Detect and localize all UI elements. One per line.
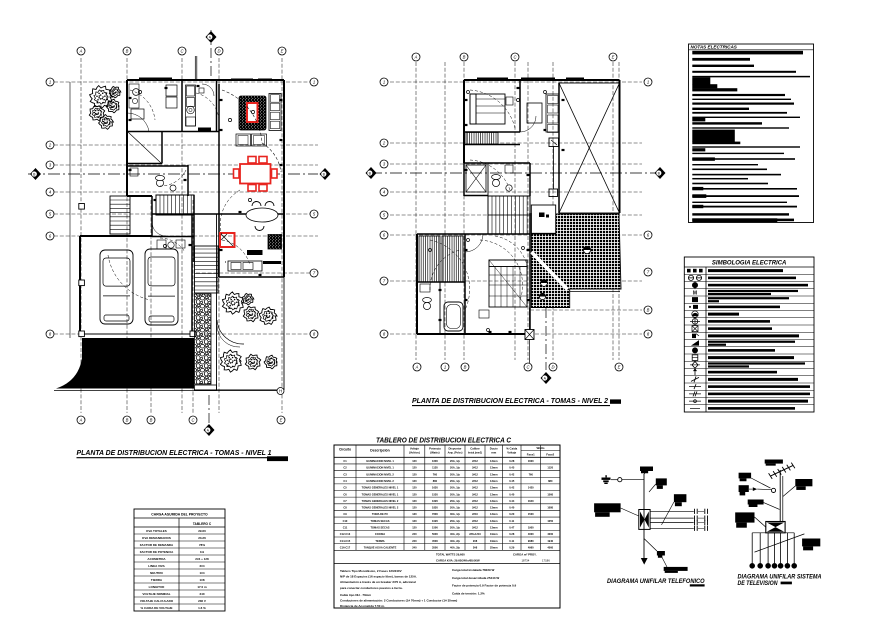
svg-text:ILUMINACION NIVEL 1: ILUMINACION NIVEL 1 xyxy=(366,459,394,463)
svg-text:1600: 1600 xyxy=(432,459,438,463)
svg-text:0.11: 0.11 xyxy=(509,539,514,543)
svg-text:COCINA: COCINA xyxy=(375,532,385,536)
svg-text:760: 760 xyxy=(433,472,438,476)
svg-text:ACOMETIDA: ACOMETIDA xyxy=(147,557,166,561)
svg-text:1.6 %: 1.6 % xyxy=(198,606,206,610)
svg-text:0.47: 0.47 xyxy=(509,526,515,530)
svg-text:1600: 1600 xyxy=(528,459,534,463)
svg-text:1620: 1620 xyxy=(432,499,438,503)
svg-text:Tablero Tipo Monofásico, 2 Fas: Tablero Tipo Monofásico, 2 Fases 120/240… xyxy=(340,569,402,573)
svg-text:2#8: 2#8 xyxy=(473,545,478,549)
svg-text:4960: 4960 xyxy=(528,545,534,549)
svg-text:2#12: 2#12 xyxy=(472,499,478,503)
svg-text:DIAGRAMA UNIFILAR TELEFONICO: DIAGRAMA UNIFILAR TELEFONICO xyxy=(607,578,705,585)
svg-text:0.28: 0.28 xyxy=(509,459,515,463)
svg-text:(Voltios): (Voltios) xyxy=(409,451,420,455)
svg-text:Caída de tensión: 1.2%: Caída de tensión: 1.2% xyxy=(452,591,485,595)
svg-text:9080: 9080 xyxy=(528,539,534,543)
svg-text:B: B xyxy=(647,308,650,313)
svg-text:E: E xyxy=(618,365,621,370)
svg-text:880: 880 xyxy=(433,479,438,483)
svg-text:25mm: 25mm xyxy=(490,545,498,549)
svg-text:240: 240 xyxy=(412,539,417,543)
svg-text:B: B xyxy=(126,418,129,423)
svg-text:2#8: 2#8 xyxy=(473,539,478,543)
svg-text:1940: 1940 xyxy=(547,539,553,543)
svg-text:Circuito: Circuito xyxy=(339,448,351,452)
svg-text:20A, 1/p: 20A, 1/p xyxy=(450,526,460,530)
svg-text:C8: C8 xyxy=(343,506,347,510)
svg-text:Factor de potencia 0.9 Fac: Factor de potencia 0.9 Factor de potenci… xyxy=(452,584,517,588)
svg-text:120: 120 xyxy=(412,472,417,476)
svg-text:A: A xyxy=(414,55,418,60)
svg-text:0.28: 0.28 xyxy=(509,532,515,536)
svg-text:TOMAS GENERALES NIVEL 2: TOMAS GENERALES NIVEL 2 xyxy=(362,506,399,510)
svg-text:2#12: 2#12 xyxy=(472,472,478,476)
svg-text:1020: 1020 xyxy=(432,519,438,523)
svg-text:C10: C10 xyxy=(343,519,348,523)
svg-text:1120: 1120 xyxy=(547,466,553,470)
svg-text:C3: C3 xyxy=(343,472,347,476)
svg-text:1900: 1900 xyxy=(528,526,534,530)
svg-text:1520: 1520 xyxy=(432,492,438,496)
svg-text:2#12: 2#12 xyxy=(472,466,478,470)
svg-text:1080: 1080 xyxy=(547,506,553,510)
svg-text:2#4 + 1#8: 2#4 + 1#8 xyxy=(195,557,209,561)
svg-text:240: 240 xyxy=(199,592,204,596)
svg-text:2#10: 2#10 xyxy=(472,512,478,516)
svg-text:Watts: Watts xyxy=(536,446,544,450)
svg-text:Disyuntor: Disyuntor xyxy=(448,447,462,451)
svg-text:760: 760 xyxy=(529,472,534,476)
svg-text:VOLTAJE CALCULADO: VOLTAJE CALCULADO xyxy=(140,599,174,603)
svg-text:C7: C7 xyxy=(343,499,347,503)
svg-text:29.60: 29.60 xyxy=(198,529,206,533)
svg-text:TIERRA: TIERRA xyxy=(151,578,163,582)
svg-text:2#12: 2#12 xyxy=(472,459,478,463)
svg-text:0.42: 0.42 xyxy=(509,472,515,476)
svg-text:0.29: 0.29 xyxy=(509,545,515,549)
svg-text:Fase2: Fase2 xyxy=(546,453,554,457)
svg-text:Alimentación a través de un br: Alimentación a través de un breaker 2/70… xyxy=(340,580,416,584)
svg-text:TOMA DE PC: TOMA DE PC xyxy=(372,512,388,516)
svg-text:A: A xyxy=(79,49,83,54)
svg-text:20A, 1/p: 20A, 1/p xyxy=(450,506,460,510)
svg-text:VOLTAJE NOMINAL: VOLTAJE NOMINAL xyxy=(142,592,170,596)
svg-text:120: 120 xyxy=(412,479,417,483)
svg-text:120: 120 xyxy=(412,526,417,530)
svg-text:120: 120 xyxy=(412,486,417,490)
svg-text:1: 1 xyxy=(49,80,51,85)
svg-text:1: 1 xyxy=(647,80,649,85)
svg-text:C11: C11 xyxy=(343,526,348,530)
svg-text:13mm: 13mm xyxy=(490,512,498,516)
svg-text:Descripción: Descripción xyxy=(370,449,389,453)
svg-text:1: 1 xyxy=(313,80,315,85)
svg-text:20A, 1/p: 20A, 1/p xyxy=(450,499,460,503)
svg-text:236 V: 236 V xyxy=(198,599,206,603)
svg-text:17186: 17186 xyxy=(542,559,550,563)
svg-text:0.45: 0.45 xyxy=(509,466,515,470)
svg-text:NEUTRO: NEUTRO xyxy=(150,571,163,575)
svg-text:880: 880 xyxy=(548,479,553,483)
svg-text:Amp. (Polos): Amp. (Polos) xyxy=(448,452,463,455)
svg-text:C4: C4 xyxy=(343,479,347,483)
svg-text:20A, 1/p: 20A, 1/p xyxy=(450,486,460,490)
svg-text:0.45: 0.45 xyxy=(509,479,515,483)
svg-text:5000: 5000 xyxy=(432,532,438,536)
svg-text:4000: 4000 xyxy=(547,532,553,536)
svg-text:13mm: 13mm xyxy=(490,459,498,463)
svg-text:LINEA VIVA: LINEA VIVA xyxy=(148,564,165,568)
svg-text:B: B xyxy=(464,365,467,370)
svg-text:23.26: 23.26 xyxy=(198,536,206,540)
svg-text:2#12: 2#12 xyxy=(472,486,478,490)
svg-text:240: 240 xyxy=(412,545,417,549)
svg-text:Conductores de alimentación: 2: Conductores de alimentación: 2 Conductor… xyxy=(340,598,457,602)
svg-text:D: D xyxy=(217,49,220,54)
svg-text:SIMBOLOGIA ELECTRICA: SIMBOLOGIA ELECTRICA xyxy=(712,261,786,267)
svg-text:13mm: 13mm xyxy=(490,479,498,483)
svg-text:120: 120 xyxy=(412,466,417,470)
svg-text:120: 120 xyxy=(412,459,417,463)
svg-text:FACTOR DE DEMANDA: FACTOR DE DEMANDA xyxy=(140,543,174,547)
svg-text:2#12: 2#12 xyxy=(472,479,478,483)
svg-text:2#4: 2#4 xyxy=(199,564,204,568)
svg-text:KVA TOTALES: KVA TOTALES xyxy=(146,529,167,533)
svg-text:4500: 4500 xyxy=(432,539,438,543)
svg-text:PLANTA DE DISTRIBUCION ELECTRI: PLANTA DE DISTRIBUCION ELECTRICA - TOMAS… xyxy=(412,398,608,405)
svg-text:1560: 1560 xyxy=(547,492,553,496)
svg-text:B: B xyxy=(150,418,153,423)
svg-text:para conectar conductores pues: para conectar conductores puestos a tier… xyxy=(340,586,403,590)
svg-text:120: 120 xyxy=(412,499,417,503)
svg-text:120: 120 xyxy=(412,492,417,496)
svg-text:0.11: 0.11 xyxy=(509,519,514,523)
svg-text:ILUMINACION NIVEL 1: ILUMINACION NIVEL 1 xyxy=(366,466,394,470)
svg-text:C12-C13: C12-C13 xyxy=(340,532,351,536)
svg-text:C5: C5 xyxy=(343,486,347,490)
svg-text:B: B xyxy=(126,49,129,54)
svg-text:240: 240 xyxy=(412,532,417,536)
svg-text:D: D xyxy=(551,365,554,370)
svg-text:13mm: 13mm xyxy=(490,466,498,470)
svg-text:1520: 1520 xyxy=(528,512,534,516)
svg-text:CARGA ASUMIDA DEL PROYECTO: CARGA ASUMIDA DEL PROYECTO xyxy=(151,513,208,517)
svg-text:40A, 2/p: 40A, 2/p xyxy=(450,532,460,536)
svg-text:Carga total desarrollada 25443: Carga total desarrollada 25443 W xyxy=(452,576,499,580)
svg-text:A: A xyxy=(415,365,419,370)
svg-text:C16-C17: C16-C17 xyxy=(340,545,351,549)
svg-text:19mm: 19mm xyxy=(490,539,498,543)
svg-text:17.0 m: 17.0 m xyxy=(197,585,207,589)
svg-text:0.42: 0.42 xyxy=(509,486,515,490)
svg-text:13mm: 13mm xyxy=(490,492,498,496)
svg-text:Voltaje: Voltaje xyxy=(507,451,516,455)
svg-text:ILUMINACION NIVEL 2: ILUMINACION NIVEL 2 xyxy=(366,479,394,483)
svg-text:20A, 1/p: 20A, 1/p xyxy=(450,466,460,470)
svg-text:Distancia de Acometida 7.50 m.: Distancia de Acometida 7.50 m. xyxy=(340,604,385,608)
svg-text:2#12: 2#12 xyxy=(472,506,478,510)
svg-text:Calibre: Calibre xyxy=(470,447,480,451)
svg-text:TOMAS GENERALES NIVEL 1: TOMAS GENERALES NIVEL 1 xyxy=(362,492,399,496)
svg-text:20A, 1/p: 20A, 1/p xyxy=(450,479,460,483)
svg-text:LONGITUD: LONGITUD xyxy=(149,585,165,589)
svg-text:13mm: 13mm xyxy=(490,519,498,523)
svg-text:TOMAS GENERALES NIVEL 1: TOMAS GENERALES NIVEL 1 xyxy=(362,486,399,490)
svg-text:1: 1 xyxy=(383,80,385,85)
svg-text:M: M xyxy=(693,290,697,296)
svg-text:4000: 4000 xyxy=(528,532,534,536)
svg-text:C1: C1 xyxy=(343,459,347,463)
svg-text:13mm: 13mm xyxy=(490,472,498,476)
svg-text:E: E xyxy=(281,49,284,54)
svg-text:PLANTA DE DISTRIBUCION ELECTRI: PLANTA DE DISTRIBUCION ELECTRICA - TOMAS… xyxy=(77,450,272,457)
svg-text:E: E xyxy=(280,418,283,423)
svg-text:7600: 7600 xyxy=(432,512,438,516)
svg-text:C14-C15: C14-C15 xyxy=(340,539,351,543)
svg-text:2#8+1#10: 2#8+1#10 xyxy=(469,532,481,536)
svg-text:CARGA KVA: 29.60/24Kv/68: CARGA KVA: 29.60/24Kv/68.0KW xyxy=(436,559,480,563)
svg-text:TERMA: TERMA xyxy=(375,539,384,543)
svg-text:(Watts): (Watts) xyxy=(430,451,439,455)
svg-text:Cable tipo NH - 70mm: Cable tipo NH - 70mm xyxy=(340,593,371,597)
svg-text:0.9: 0.9 xyxy=(200,550,205,554)
svg-text:TANQUE AGUA CALIENTE: TANQUE AGUA CALIENTE xyxy=(364,545,397,549)
svg-text:20A, 1/p: 20A, 1/p xyxy=(450,519,460,523)
svg-text:1: 1 xyxy=(444,365,446,370)
svg-text:2#12: 2#12 xyxy=(472,519,478,523)
svg-text:19mm: 19mm xyxy=(490,532,498,536)
svg-text:B: B xyxy=(463,55,466,60)
svg-text:1120: 1120 xyxy=(432,466,438,470)
svg-text:18734: 18734 xyxy=(522,559,530,563)
svg-text:120: 120 xyxy=(412,519,417,523)
svg-text:C2: C2 xyxy=(343,466,347,470)
svg-text:N/P de 18 Espacios (16 espacio: N/P de 18 Espacios (16 espacio libre), b… xyxy=(340,575,417,579)
svg-text:0.20: 0.20 xyxy=(509,512,515,516)
svg-text:130: 130 xyxy=(412,512,417,516)
svg-text:30A, 1/p: 30A, 1/p xyxy=(450,512,460,516)
svg-text:KVA DEMANDADOS: KVA DEMANDADOS xyxy=(142,536,171,540)
svg-text:ILUMINACION NIVEL 2: ILUMINACION NIVEL 2 xyxy=(366,472,394,476)
svg-text:0.44: 0.44 xyxy=(509,499,515,503)
svg-text:13mm: 13mm xyxy=(490,526,498,530)
svg-text:CARGA m² PROY.: CARGA m² PROY. xyxy=(513,552,537,556)
svg-text:TOTAL WATTS 29,600: TOTAL WATTS 29,600 xyxy=(436,552,465,556)
svg-text:13mm: 13mm xyxy=(490,486,498,490)
svg-text:E: E xyxy=(612,55,615,60)
svg-text:120: 120 xyxy=(412,506,417,510)
svg-text:1050: 1050 xyxy=(547,519,553,523)
svg-text:C9: C9 xyxy=(343,512,347,516)
svg-text:A: A xyxy=(79,418,83,423)
svg-text:% CAIDA DE VOLTAJE: % CAIDA DE VOLTAJE xyxy=(140,606,172,610)
svg-text:C6: C6 xyxy=(343,492,347,496)
svg-text:TABLERO C: TABLERO C xyxy=(193,522,212,526)
svg-text:1#4: 1#4 xyxy=(199,571,204,575)
svg-text:20A, 1/p: 20A, 1/p xyxy=(450,492,460,496)
svg-text:78%: 78% xyxy=(199,543,205,547)
svg-text:TABLERO DE DISTRIBUCION ELECTR: TABLERO DE DISTRIBUCION ELECTRICA C xyxy=(376,436,511,445)
svg-text:mm: mm xyxy=(491,451,496,455)
svg-text:TOMAS SECAS: TOMAS SECAS xyxy=(371,519,390,523)
svg-text:1820: 1820 xyxy=(432,506,438,510)
svg-text:TOMAS SECAS: TOMAS SECAS xyxy=(371,526,390,530)
svg-text:NOTAS ELECTRICAS: NOTAS ELECTRICAS xyxy=(691,45,738,50)
svg-text:3500: 3500 xyxy=(432,545,438,549)
svg-text:40A, 2/p: 40A, 2/p xyxy=(450,545,460,549)
svg-text:13mm: 13mm xyxy=(490,506,498,510)
svg-text:1620: 1620 xyxy=(432,486,438,490)
svg-text:20A, 1/p: 20A, 1/p xyxy=(450,472,460,476)
svg-text:40A, 2/p: 40A, 2/p xyxy=(450,539,460,543)
svg-text:Carga total instalada 78229 W: Carga total instalada 78229 W xyxy=(452,568,495,572)
svg-text:Instal.(mm2): Instal.(mm2) xyxy=(468,452,482,455)
svg-text:FACTOR DE POTENCIA: FACTOR DE POTENCIA xyxy=(140,550,174,554)
svg-text:1640: 1640 xyxy=(528,499,534,503)
svg-text:20A, 1/p: 20A, 1/p xyxy=(450,459,460,463)
svg-text:1420: 1420 xyxy=(528,486,534,490)
svg-text:0.40: 0.40 xyxy=(509,506,515,510)
svg-text:1500: 1500 xyxy=(432,526,438,530)
svg-text:Fase1: Fase1 xyxy=(527,453,535,457)
svg-text:2#12: 2#12 xyxy=(472,526,478,530)
svg-text:2#12: 2#12 xyxy=(472,492,478,496)
svg-text:4060: 4060 xyxy=(547,545,553,549)
svg-text:DE TELEVISION: DE TELEVISION xyxy=(738,580,778,587)
svg-text:TOMAS GENERALES NIVEL 2: TOMAS GENERALES NIVEL 2 xyxy=(362,499,399,503)
svg-text:13mm: 13mm xyxy=(490,499,498,503)
svg-text:0.40: 0.40 xyxy=(509,492,515,496)
svg-text:1#8: 1#8 xyxy=(199,578,204,582)
